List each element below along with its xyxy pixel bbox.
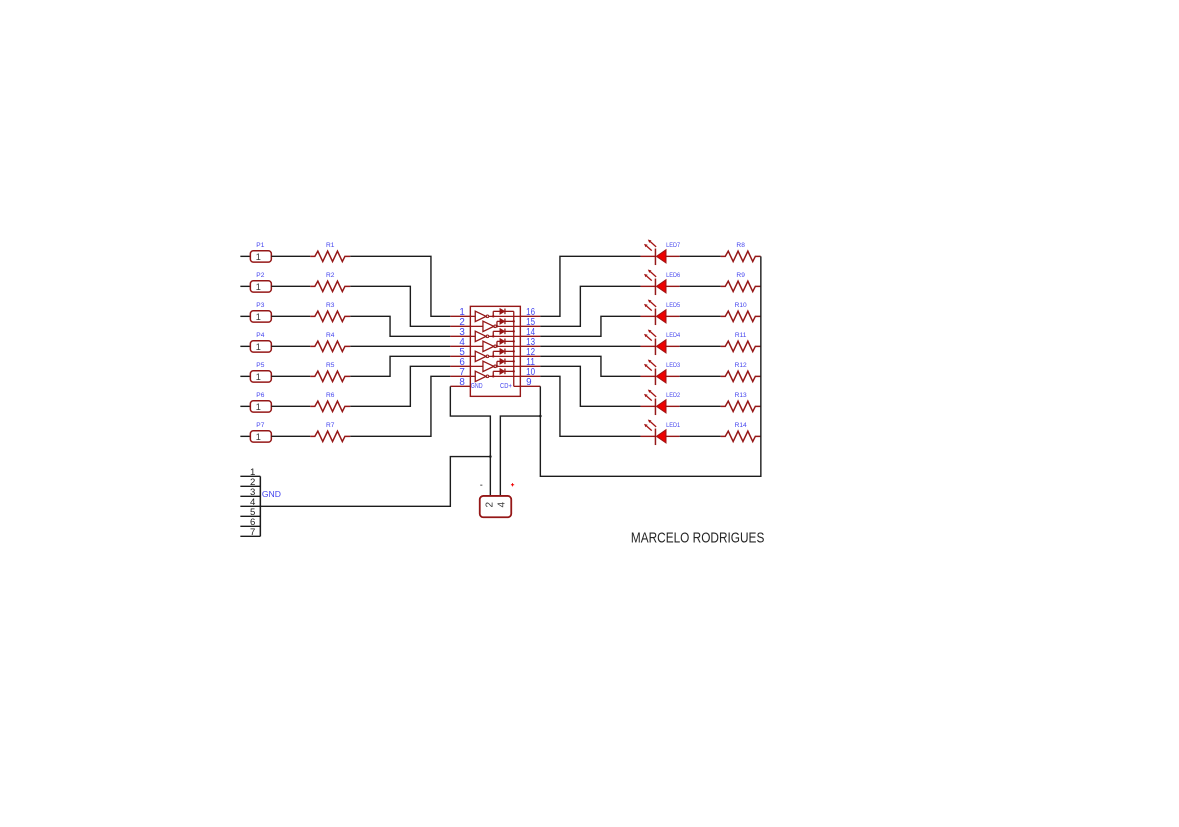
- svg-text:P1: P1: [256, 242, 264, 249]
- LED6: [641, 269, 680, 295]
- U1 pin 9 (right): [520, 385, 540, 387]
- wire LED7 to R8: [680, 255, 721, 257]
- IC U1 body: [470, 306, 520, 396]
- svg-text:P2: P2: [256, 272, 264, 279]
- resistor R1: [310, 251, 350, 261]
- LED1: [641, 419, 680, 445]
- svg-text:LED4: LED4: [666, 332, 680, 339]
- wire U1 pin 10 to LED1: [540, 376, 640, 436]
- svg-text:LED3: LED3: [666, 362, 680, 369]
- svg-text:1: 1: [256, 282, 261, 292]
- U1 pin 4 (left): [450, 345, 470, 347]
- resistor R13: [721, 401, 761, 411]
- svg-text:4: 4: [496, 501, 507, 507]
- resistor R14: [721, 431, 761, 441]
- svg-text:R6: R6: [326, 392, 335, 399]
- buffer channel 2: [470, 321, 520, 331]
- wire LED6 to R9: [680, 285, 721, 287]
- connector P6: [240, 401, 271, 412]
- connector P3: [240, 311, 271, 322]
- wire R5 to U1 pin 5: [350, 356, 450, 376]
- svg-text:LED7: LED7: [666, 242, 680, 249]
- U1 pin 13 (right): [520, 345, 540, 347]
- U1 pin 15 (right): [520, 325, 540, 327]
- svg-text:GND: GND: [262, 489, 281, 499]
- diode channel 1: [493, 309, 514, 317]
- buffer channel 5: [470, 351, 520, 361]
- wire LED5 to R10: [680, 315, 721, 317]
- connector J1: [240, 476, 260, 536]
- wire R6 to U1 pin 6: [350, 366, 450, 406]
- resistor R7: [310, 431, 350, 441]
- U1 pin 6 (left): [450, 365, 470, 367]
- svg-text:7: 7: [250, 527, 255, 538]
- svg-text:8: 8: [459, 377, 465, 388]
- connector P4: [240, 341, 271, 352]
- svg-text:R14: R14: [735, 422, 747, 429]
- battery G1: [480, 496, 512, 517]
- svg-text:1: 1: [256, 312, 261, 322]
- U1 pin 16 (right): [520, 315, 540, 317]
- wire LED3 to R12: [680, 375, 721, 377]
- wire P3 to R3: [271, 315, 310, 317]
- supply wire U1 pin 9 to resistor bus: [540, 256, 761, 476]
- U1 pin 7 (left): [450, 375, 470, 377]
- resistor R3: [310, 311, 350, 321]
- svg-text:1: 1: [256, 432, 261, 442]
- svg-text:R4: R4: [326, 332, 335, 339]
- U1 pin 11 (right): [520, 365, 540, 367]
- buffer channel 4: [470, 341, 520, 351]
- svg-text:P4: P4: [256, 332, 264, 339]
- buffer channel 3: [470, 331, 520, 341]
- svg-text:2: 2: [484, 501, 495, 507]
- svg-text:R1: R1: [326, 242, 335, 249]
- wire R3 to U1 pin 3: [350, 316, 450, 336]
- U1 pin 12 (right): [520, 355, 540, 357]
- wire LED4 to R11: [680, 345, 721, 347]
- svg-text:R9: R9: [736, 272, 745, 279]
- junction GND wire: [489, 455, 492, 458]
- diode channel 5: [493, 349, 515, 357]
- svg-text:1: 1: [256, 342, 261, 352]
- diode channel 2: [497, 319, 515, 327]
- svg-text:1: 1: [256, 402, 261, 412]
- wire U1 pin 15 to LED6: [540, 286, 640, 326]
- wire R1 to U1 pin 1: [350, 256, 450, 316]
- wire R7 to U1 pin 7: [350, 376, 450, 436]
- LED4: [641, 329, 680, 355]
- U1 pin 5 (left): [450, 355, 470, 357]
- wire LED1 to R14: [680, 435, 721, 437]
- LED3: [641, 359, 680, 385]
- wire P7 to R7: [271, 435, 310, 437]
- resistor R2: [310, 281, 350, 291]
- wire U1 pin 11 to LED2: [540, 366, 640, 406]
- svg-text:LED1: LED1: [666, 422, 680, 429]
- battery minus mark: [480, 484, 482, 486]
- resistor R12: [721, 371, 761, 381]
- diode common bus to pin 9: [513, 311, 515, 386]
- resistor R10: [721, 311, 761, 321]
- svg-text:R7: R7: [326, 422, 335, 429]
- buffer channel 6: [470, 361, 520, 371]
- svg-text:LED2: LED2: [666, 392, 680, 399]
- U1 pin 8 (left): [450, 385, 470, 387]
- buffer channel 7: [470, 371, 520, 381]
- resistor R5: [310, 371, 350, 381]
- svg-text:R5: R5: [326, 362, 335, 369]
- U1 pin 3 (left): [450, 335, 470, 337]
- svg-text:R3: R3: [326, 302, 335, 309]
- svg-text:R11: R11: [735, 332, 747, 339]
- U1 pin 14 (right): [520, 335, 540, 337]
- LED5: [641, 299, 680, 325]
- wire R4 to U1 pin 4: [350, 345, 450, 347]
- wire P2 to R2: [271, 285, 310, 287]
- LED2: [641, 389, 680, 415]
- resistor R8: [721, 251, 761, 261]
- resistor R9: [721, 281, 761, 291]
- wire LED2 to R13: [680, 405, 721, 407]
- svg-text:R10: R10: [735, 302, 747, 309]
- resistor R6: [310, 401, 350, 411]
- wire U1 pin 16 to LED7: [540, 256, 640, 316]
- wire U1 pin 13 to LED4: [540, 345, 640, 347]
- svg-text:1: 1: [256, 252, 261, 262]
- diode channel 4: [497, 339, 515, 347]
- junction battery+ on pin9 wire: [539, 415, 542, 418]
- U1 pin 2 (left): [450, 325, 470, 327]
- svg-text:GND: GND: [471, 381, 483, 390]
- svg-text:9: 9: [526, 377, 531, 388]
- svg-text:LED6: LED6: [666, 272, 680, 279]
- wire R2 to U1 pin 2: [350, 286, 450, 326]
- wire P1 to R1: [271, 255, 310, 257]
- wire battery - to U1 pin 8 GND: [450, 386, 490, 496]
- wire U1 pin 12 to LED3: [540, 356, 640, 376]
- connector P2: [240, 281, 271, 292]
- diode channel 6: [497, 359, 515, 367]
- battery plus mark: [511, 483, 514, 486]
- svg-text:R12: R12: [735, 362, 747, 369]
- wire P5 to R5: [271, 375, 310, 377]
- wire J1 pin 4 to GND net: [260, 457, 490, 507]
- svg-text:MARCELO RODRIGUES: MARCELO RODRIGUES: [631, 530, 765, 546]
- diode channel 7: [493, 369, 515, 377]
- wire battery + to supply: [500, 416, 540, 496]
- LED7: [641, 239, 680, 265]
- buffer channel 1: [470, 311, 520, 321]
- svg-text:R8: R8: [736, 242, 745, 249]
- wire U1 pin 14 to LED5: [540, 316, 640, 336]
- svg-text:R13: R13: [735, 392, 747, 399]
- svg-text:1: 1: [256, 372, 261, 382]
- diode channel 3: [493, 329, 515, 337]
- svg-text:LED5: LED5: [666, 302, 680, 309]
- wire P4 to R4: [271, 345, 310, 347]
- resistor R11: [721, 341, 761, 351]
- svg-text:R2: R2: [326, 272, 335, 279]
- connector P1: [240, 251, 271, 262]
- svg-text:P7: P7: [256, 422, 264, 429]
- resistor R4: [310, 341, 350, 351]
- svg-text:CD+: CD+: [500, 381, 512, 390]
- svg-text:P6: P6: [256, 392, 264, 399]
- svg-text:P3: P3: [256, 302, 264, 309]
- connector P5: [240, 371, 271, 382]
- U1 pin 10 (right): [520, 375, 540, 377]
- connector P7: [240, 431, 271, 442]
- wire P6 to R6: [271, 405, 310, 407]
- U1 pin 1 (left): [450, 315, 470, 317]
- svg-text:P5: P5: [256, 362, 264, 369]
